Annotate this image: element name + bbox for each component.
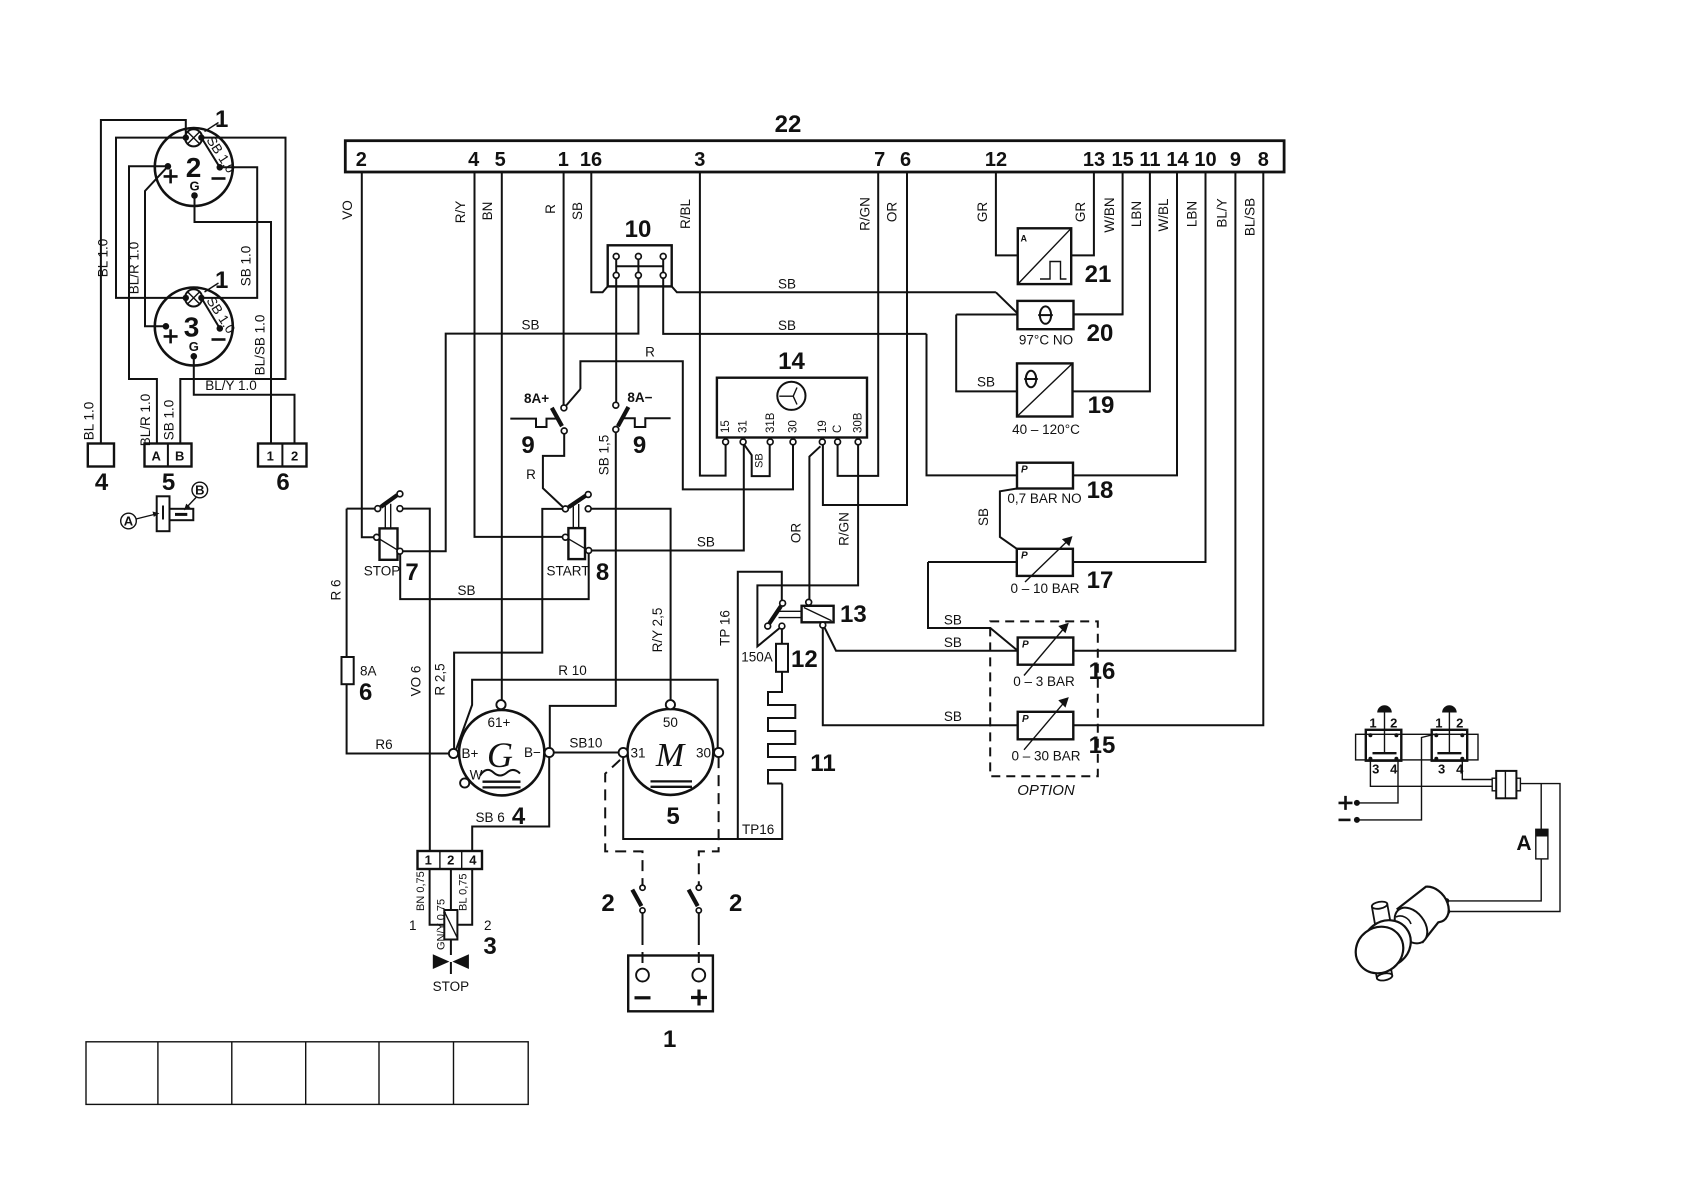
svg-text:OPTION: OPTION (1017, 782, 1075, 799)
svg-text:STOP: STOP (364, 564, 401, 579)
svg-text:30: 30 (788, 420, 800, 433)
svg-text:BL/SB: BL/SB (1243, 198, 1258, 236)
svg-text:TP16: TP16 (742, 822, 774, 837)
circuit breaker 9 (8A+) (510, 391, 567, 459)
svg-text:19: 19 (1088, 392, 1115, 419)
wire SB from relay 13 to sender 15 (823, 628, 1018, 725)
svg-text:BL 1.0: BL 1.0 (96, 239, 111, 278)
svg-text:50: 50 (663, 715, 678, 730)
svg-text:2: 2 (447, 853, 454, 868)
svg-text:OR: OR (789, 523, 804, 544)
wire SB 1.0 diagonal bulb3 to minus3 (201, 294, 238, 336)
svg-text:A: A (1516, 832, 1531, 855)
connector 10 (608, 216, 996, 292)
wire SB stop contact to start contact (400, 553, 589, 599)
svg-text:3: 3 (694, 149, 705, 171)
svg-text:30: 30 (696, 746, 711, 761)
svg-text:SB: SB (570, 202, 585, 220)
pointer 1 (instrument 3 bulb) (205, 283, 219, 292)
svg-text:15: 15 (1111, 149, 1133, 171)
wire R/BL from terminal 3 to unit 14 pin 15 (678, 172, 726, 476)
wire SB loop from 17 down to sender 16 (928, 562, 1018, 651)
svg-text:14: 14 (778, 348, 805, 375)
battery switch 2 (minus side) (601, 760, 645, 969)
wire W/BN from terminal 15 to switch 20 (1074, 172, 1123, 314)
sender 21 (tachometer sender) (1018, 228, 1112, 288)
wire BL 0,75 pin 4 to stop solenoid (457, 869, 491, 933)
svg-text:6: 6 (359, 679, 372, 706)
wire VO from terminal 2 to stop switch 7 (340, 172, 374, 537)
svg-text:4: 4 (469, 853, 477, 868)
svg-text:SB: SB (778, 318, 796, 333)
wire GR from terminal 13 to sender 21 (1071, 172, 1094, 255)
test switch (TP) (757, 600, 785, 646)
wire from 10 left to breaker 9 (8A-) (615, 278, 617, 402)
svg-text:6: 6 (276, 469, 289, 496)
svg-text:W/BN: W/BN (1102, 197, 1117, 232)
svg-text:17: 17 (1087, 567, 1114, 594)
svg-text:2: 2 (601, 890, 614, 917)
wire SB 1,5 from breaker 8A- to generator B- (550, 432, 616, 748)
svg-text:16: 16 (1089, 658, 1116, 685)
wire plus2 loop to connector 5 A (BL/R 1.0) (129, 166, 168, 446)
wire R jog from 8A+ to start switch pivot (526, 434, 564, 507)
svg-text:C: C (832, 425, 844, 433)
svg-text:9: 9 (633, 432, 646, 459)
svg-text:R: R (645, 345, 655, 360)
svg-text:R/GN: R/GN (858, 197, 873, 231)
relay 13 (779, 599, 867, 628)
inline connector (coupler) (1492, 771, 1520, 798)
OPTION dashed frame (990, 621, 1098, 799)
svg-text:BL/Y: BL/Y (1215, 198, 1230, 227)
svg-text:13: 13 (1083, 149, 1105, 171)
circuit breaker 9 (8A-) (613, 390, 671, 459)
plus terminal instrument 3 (163, 323, 170, 330)
stop solenoid 3 (433, 910, 497, 994)
svg-text:BN: BN (480, 202, 495, 221)
svg-text:SB: SB (521, 318, 539, 333)
G terminal instrument 3 (191, 353, 198, 360)
svg-text:7: 7 (405, 559, 418, 586)
wire SB jog from 18 to 17 (1000, 489, 1017, 549)
svg-text:GR: GR (975, 202, 990, 223)
wires from rocker switches to connector (1370, 761, 1492, 787)
svg-text:3: 3 (1438, 762, 1445, 777)
svg-text:1: 1 (558, 149, 569, 171)
svg-text:0 – 30 BAR: 0 – 30 BAR (1011, 749, 1080, 764)
svg-text:2: 2 (356, 149, 367, 171)
pressure sender 17 (0-10 BAR) (928, 536, 1113, 651)
svg-text:B−: B− (524, 745, 541, 760)
svg-text:0 – 10 BAR: 0 – 10 BAR (1010, 581, 1079, 596)
svg-text:SB: SB (944, 709, 962, 724)
svg-text:R/Y: R/Y (453, 201, 468, 224)
svg-text:R: R (543, 204, 558, 214)
wire R 2,5 from start pivot node to B+ (433, 599, 543, 749)
svg-text:OR: OR (885, 202, 900, 223)
bulb 1 of instrument 3 (185, 289, 202, 306)
battery switch 2 (plus side) (689, 757, 743, 969)
svg-text:A: A (1021, 234, 1028, 244)
svg-text:P: P (1022, 640, 1029, 651)
plus terminal instrument 2 (165, 163, 172, 170)
minus terminal instrument 3 (217, 325, 224, 332)
svg-text:4: 4 (1390, 762, 1398, 777)
svg-text:P: P (1022, 714, 1029, 725)
svg-text:GN/Y 0,75: GN/Y 0,75 (436, 899, 448, 950)
wire BL/SB from terminal 8 to sender 15 (1073, 172, 1263, 725)
minus supply feed (1339, 734, 1435, 823)
wire R/GN 30B to test switch (757, 445, 858, 647)
svg-text:150A: 150A (741, 650, 773, 665)
svg-text:M: M (655, 737, 686, 774)
svg-text:SB 6: SB 6 (475, 810, 504, 825)
svg-text:BL/R 1.0: BL/R 1.0 (138, 394, 153, 447)
pointer 1 (instrument 2 bulb) (205, 123, 219, 132)
svg-text:VO 6: VO 6 (409, 666, 424, 697)
svg-text:8: 8 (596, 559, 609, 586)
pressure sender 16 (0-3 BAR) (944, 623, 1115, 689)
wire SB from 10 middle to stop switch 7 (403, 278, 639, 551)
wire VO 6 from stop contact to connector pin 1 (403, 509, 430, 851)
shunt resistor 11 (768, 672, 836, 784)
G terminal instrument 2 (191, 192, 198, 199)
svg-text:14: 14 (1166, 149, 1189, 171)
svg-text:16: 16 (580, 149, 602, 171)
svg-text:12: 12 (791, 646, 818, 673)
svg-text:START: START (546, 564, 589, 579)
svg-text:21: 21 (1085, 261, 1112, 288)
wire R/Y 2,5 start contact to motor 50 (591, 509, 671, 700)
wire SB 1.0 diagonal bulb2 to minus2 (201, 133, 238, 175)
wire SB start contact to unit 14 pin 31 (592, 445, 744, 551)
svg-text:STOP: STOP (433, 979, 470, 994)
svg-text:30B: 30B (853, 412, 865, 433)
svg-text:2: 2 (484, 918, 492, 933)
svg-text:1: 1 (409, 918, 417, 933)
svg-text:18: 18 (1087, 477, 1114, 504)
wire SB relay 13 to sender 16 (825, 628, 1018, 651)
instrument 3 (gauge) (155, 267, 233, 366)
svg-text:31: 31 (631, 746, 646, 761)
wire R 6 from stop pivot to fuse 6 and B+ (328, 509, 346, 657)
wire 19 to relay 13 (OR) (789, 446, 821, 599)
stop switch 7 (347, 491, 419, 586)
svg-text:1: 1 (267, 449, 274, 464)
svg-text:LBN: LBN (1185, 201, 1200, 227)
svg-text:1: 1 (1369, 716, 1376, 731)
connector 5 (A B) (145, 444, 192, 497)
svg-text:R/GN: R/GN (836, 512, 851, 546)
svg-text:9: 9 (1230, 149, 1241, 171)
connector 4 (88, 444, 114, 497)
wire G3 to connector 6 pin 2 (BL/Y 1.0) (194, 356, 295, 443)
svg-text:R/BL: R/BL (678, 199, 693, 230)
wire BL 1.0 bulb2 to connector 4 (82, 120, 186, 444)
wire LBN from terminal 11 to sender 19 (1073, 172, 1150, 391)
wire SB from start pivot down (542, 509, 562, 599)
temperature sender 19 (40-120C) (956, 315, 1114, 438)
svg-text:2: 2 (1456, 716, 1463, 731)
wire SB 6 generator B- to connector pin 4 (472, 757, 549, 851)
wire GR from terminal 12 to sender 21 (975, 172, 1018, 255)
pressure sender 15 (0-30 BAR) (823, 628, 1116, 764)
wire TP16 motor 31 to test switch and shunt 11 (623, 572, 782, 839)
svg-text:SB: SB (697, 534, 715, 549)
svg-text:BN 0,75: BN 0,75 (415, 871, 427, 911)
svg-text:1: 1 (215, 267, 228, 294)
svg-text:SB10: SB10 (569, 736, 602, 751)
svg-text:20: 20 (1087, 320, 1114, 347)
wire BN from terminal 5 to generator 61+ (480, 172, 502, 700)
svg-text:A: A (124, 514, 134, 529)
svg-text:22: 22 (775, 111, 802, 138)
svg-text:4: 4 (468, 149, 480, 171)
svg-text:19: 19 (817, 420, 829, 433)
svg-text:BL/SB 1.0: BL/SB 1.0 (253, 315, 268, 376)
svg-text:LBN: LBN (1129, 201, 1144, 227)
pump (electric pump unit) (1346, 887, 1448, 983)
wire R linking breakers and unit 14 pin 30 (566, 345, 793, 490)
svg-text:BL 1.0: BL 1.0 (82, 402, 97, 441)
svg-text:B+: B+ (462, 746, 479, 761)
svg-text:10: 10 (1194, 149, 1216, 171)
svg-text:SB: SB (944, 635, 962, 650)
accessory rocker switch B (right) (1432, 705, 1468, 776)
svg-text:97°C NO: 97°C NO (1019, 333, 1073, 348)
svg-text:SB 1.0: SB 1.0 (162, 400, 177, 441)
svg-text:B: B (195, 483, 204, 498)
svg-text:1: 1 (663, 1026, 676, 1053)
svg-text:B: B (175, 449, 184, 464)
svg-text:5: 5 (162, 469, 175, 496)
wire BL/Y from terminal 9 to sender 16 (1073, 172, 1235, 651)
connector (1 2 4) (418, 851, 483, 869)
svg-text:SB 1,5: SB 1,5 (597, 435, 612, 476)
link 31 to 31B on unit 14 (744, 444, 770, 476)
svg-text:R 2,5: R 2,5 (433, 663, 448, 695)
thermal switch 20 (97C NO) (956, 292, 1122, 347)
wire R from terminal 1 to breaker 9 (8A+) (543, 172, 564, 405)
svg-text:8A+: 8A+ (524, 391, 549, 406)
svg-text:4: 4 (95, 469, 109, 496)
svg-text:VO: VO (340, 200, 355, 220)
svg-text:61+: 61+ (487, 715, 510, 730)
wire bulb2 right to connector 5 B (SB 1.0) (162, 138, 286, 444)
wire minus2 to bulb3 right (SB 1.0) (201, 167, 257, 298)
wire G2 to connector 6 pin 1 (BL/SB 1.0) (195, 196, 272, 444)
svg-text:7: 7 (874, 149, 885, 171)
svg-text:15: 15 (720, 420, 732, 433)
svg-text:SB: SB (457, 583, 475, 598)
svg-text:SB 1.0: SB 1.0 (239, 246, 254, 287)
svg-text:6: 6 (900, 149, 911, 171)
pressure switch 18 (0,7 BAR NO) (927, 334, 1114, 549)
svg-text:8A: 8A (360, 664, 377, 679)
terminal strip 22 (bus bar) (345, 111, 1284, 172)
svg-text:5: 5 (666, 803, 679, 830)
wire SB to switch 18 (927, 334, 1018, 476)
start switch 8 (546, 492, 609, 586)
svg-text:P: P (1021, 551, 1028, 562)
svg-text:40 – 120°C: 40 – 120°C (1012, 422, 1080, 437)
svg-text:BL/R 1.0: BL/R 1.0 (127, 242, 142, 295)
wire R/Y from terminal 4 to start switch 8 (453, 172, 563, 537)
connector 6 (1 2) (258, 444, 307, 497)
wire OR from terminal 6 to unit 14 pin 19 (823, 172, 907, 505)
wire SB right foot of 10 to switch 20 (672, 286, 996, 292)
svg-text:BL 0,75: BL 0,75 (457, 873, 469, 911)
svg-text:SB: SB (944, 613, 962, 628)
svg-text:12: 12 (985, 149, 1007, 171)
wire SB loop from switch 20 to sender 19 (956, 315, 1017, 392)
motor 5 (starter) (619, 700, 724, 830)
minus terminal instrument 2 (217, 164, 224, 171)
svg-text:R: R (526, 467, 536, 482)
svg-text:SB: SB (778, 276, 796, 291)
svg-text:1: 1 (215, 106, 228, 133)
fuse 6 (8A) (342, 657, 449, 754)
svg-text:SB: SB (976, 508, 991, 526)
svg-text:2: 2 (729, 890, 742, 917)
plus supply feed (1339, 761, 1399, 810)
wire plus3 to plus2 (BL/R 1.0) (127, 166, 168, 326)
unit 14 (control unit) (717, 348, 867, 445)
battery 1 (628, 956, 713, 1054)
svg-text:0,7 BAR NO: 0,7 BAR NO (1007, 491, 1081, 506)
svg-text:8: 8 (1258, 149, 1269, 171)
svg-text:10: 10 (625, 216, 652, 243)
wire W/BL from terminal 14 to switch 18 (1073, 172, 1177, 475)
svg-text:1: 1 (1435, 716, 1442, 731)
svg-text:BL/Y 1.0: BL/Y 1.0 (205, 378, 257, 393)
svg-text:W/BL: W/BL (1156, 198, 1171, 231)
svg-text:A: A (152, 449, 162, 464)
svg-text:13: 13 (840, 601, 867, 628)
svg-text:R/Y 2,5: R/Y 2,5 (650, 608, 665, 653)
svg-text:11: 11 (810, 750, 835, 777)
wire from coupler to pump (direct) (1445, 784, 1560, 915)
svg-text:P: P (1021, 465, 1028, 476)
svg-text:3: 3 (1372, 762, 1379, 777)
wire SB10 generator B- to motor 31 (554, 736, 619, 753)
wire LBN from terminal 10 to sender 17 (1073, 172, 1206, 562)
wire SB from 10 right to pressure switch 18 (663, 278, 926, 334)
svg-text:G: G (487, 735, 513, 775)
svg-text:GR: GR (1073, 202, 1088, 223)
fuse A holder (1444, 784, 1548, 904)
svg-text:15: 15 (1089, 732, 1116, 759)
wire R 10 motor 30 to generator B+ (456, 663, 718, 750)
svg-text:R6: R6 (375, 737, 392, 752)
accessory rocker switch A (left) (1356, 705, 1478, 776)
fuse 12 (150A) (741, 629, 817, 673)
svg-text:G: G (189, 339, 199, 354)
svg-text:3: 3 (184, 312, 200, 343)
instrument 2 (gauge) (155, 106, 233, 206)
svg-text:0 – 3 BAR: 0 – 3 BAR (1013, 674, 1075, 689)
empty legend table (86, 1042, 528, 1105)
svg-text:SB: SB (977, 375, 995, 390)
svg-text:1: 1 (425, 853, 432, 868)
svg-text:8A−: 8A− (627, 390, 652, 405)
key symbol with callouts A and B (121, 482, 208, 531)
svg-text:2: 2 (291, 449, 298, 464)
wire R/GN from terminal 7 to unit 14 pin C (838, 172, 879, 476)
svg-text:31B: 31B (765, 412, 777, 433)
bulb 1 of instrument 2 (185, 129, 202, 146)
svg-text:SB: SB (754, 453, 766, 468)
svg-text:2: 2 (1390, 716, 1397, 731)
wire GN/Y 0,75 pin 2 to stop solenoid (436, 869, 451, 950)
svg-text:TP 16: TP 16 (718, 610, 733, 646)
svg-text:5: 5 (495, 149, 506, 171)
svg-text:R 10: R 10 (558, 663, 587, 678)
svg-text:3: 3 (483, 933, 496, 960)
generator 4 (449, 700, 554, 830)
svg-text:31: 31 (738, 420, 750, 433)
wire bulb2 left to bulb3 left (116, 138, 186, 298)
svg-text:R 6: R 6 (328, 579, 343, 600)
svg-text:11: 11 (1139, 149, 1160, 171)
svg-text:G: G (189, 179, 199, 194)
wire BN 0,75 pin 1 to stop solenoid (409, 869, 444, 933)
wire SB from terminal 16 to connector 10 foot (570, 172, 608, 292)
svg-text:9: 9 (521, 432, 534, 459)
